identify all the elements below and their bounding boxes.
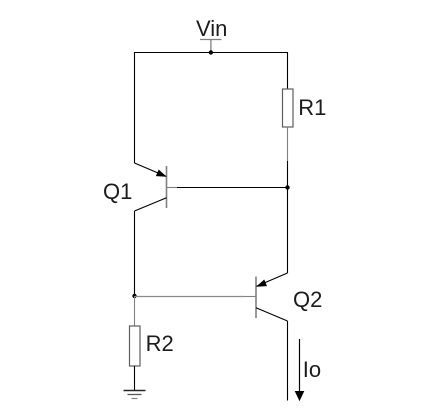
svg-text:Q2: Q2 — [293, 287, 322, 312]
current arrow Io — [295, 339, 305, 401]
svg-text:R1: R1 — [298, 95, 326, 120]
resistor R2 — [130, 326, 141, 366]
wire Q1 collector down to node B — [134, 211, 136, 296]
svg-text:Vin: Vin — [196, 16, 227, 41]
svg-text:R2: R2 — [146, 331, 174, 356]
junction dot node A — [285, 185, 289, 189]
power port Vin — [196, 16, 227, 53]
wire Q1 base to node A — [177, 187, 288, 189]
junction dot at Vin rail — [209, 50, 213, 54]
wire node A down to Q2 emitter — [287, 188, 289, 274]
resistor R1 — [283, 89, 294, 161]
svg-text:Q1: Q1 — [103, 179, 132, 204]
transistor Q2 (PNP, mirrored) — [245, 273, 288, 321]
svg-text:Io: Io — [303, 357, 321, 382]
wire node B down to R2 — [134, 296, 136, 326]
wire R2 to ground — [134, 366, 136, 391]
transistor Q1 (PNP) — [135, 163, 179, 211]
junction dot node B — [132, 294, 136, 298]
ground — [124, 391, 146, 399]
wire top rail — [134, 52, 288, 54]
wire node B to Q2 base — [135, 296, 246, 298]
wire rail to R1 — [287, 52, 289, 89]
wire R1 to node A — [287, 161, 289, 188]
wire left vertical from rail to Q1 emitter — [134, 52, 136, 163]
wire Q2 collector output — [287, 321, 289, 401]
